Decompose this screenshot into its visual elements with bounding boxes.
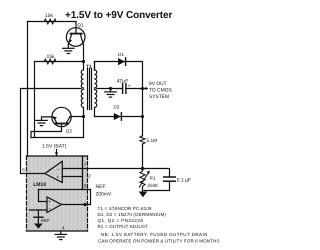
node: D2 bus junction <box>141 115 144 118</box>
svg-text:D1: D1 <box>118 52 124 57</box>
svg-text:D1, D2 = 1N270 (GERMANIUM): D1, D2 = 1N270 (GERMANIUM) <box>98 212 167 217</box>
wire: top horizontal to Q1 base <box>28 21 77 23</box>
wire: Q2 collector to primary bottom <box>70 116 84 118</box>
wire: feedback to LM10 <box>62 168 142 170</box>
svg-text:200mV: 200mV <box>96 191 113 197</box>
wire: battery loop bottom <box>31 137 84 139</box>
svg-text:4: 4 <box>62 226 65 231</box>
wire: secondary bottom to bus <box>95 116 143 118</box>
diode D2 <box>114 113 122 120</box>
svg-text:D2: D2 <box>114 105 120 110</box>
svg-text:SYSTEM: SYSTEM <box>149 94 169 100</box>
ground (Q1 emitter) <box>63 45 74 54</box>
resistor R 15k (top) <box>44 19 56 24</box>
wire: op-amp output to drive rail <box>21 173 45 175</box>
svg-text:6: 6 <box>22 168 25 173</box>
svg-text:R1 = OUTPUT ADJUST: R1 = OUTPUT ADJUST <box>98 224 149 229</box>
svg-text:0.1 µF: 0.1 µF <box>177 178 191 184</box>
wire: Q2 emitter to ground <box>42 117 54 121</box>
svg-text:250K: 250K <box>148 183 160 188</box>
ground (Q2 emitter) <box>36 120 47 125</box>
svg-text:7: 7 <box>84 162 87 167</box>
wire: primary center tap <box>21 88 82 90</box>
reference symbol REF <box>34 210 43 229</box>
svg-text:CAN OPERATE ON POWER & UTILITY: CAN OPERATE ON POWER & UTILITY FOR 6 MON… <box>98 239 220 244</box>
transistor Q1 <box>66 22 85 47</box>
wire: comparator minus input <box>62 176 82 178</box>
wire: cap to bus <box>126 88 143 90</box>
wire: secondary top to bus <box>95 62 143 89</box>
capacitor 47uF <box>123 84 126 94</box>
wire: battery stub into box <box>56 150 58 156</box>
label 9V OUT TO CMOS SYSTEM <box>149 81 172 100</box>
svg-text:Q2: Q2 <box>66 129 73 134</box>
wire: ref amp output <box>62 204 91 206</box>
potentiometer R1 250K <box>139 169 150 188</box>
svg-text:47µF: 47µF <box>117 79 129 85</box>
wire: Q2 base return <box>31 132 62 138</box>
ground (output) <box>105 89 116 98</box>
transformer T1 secondary winding <box>95 62 97 117</box>
diode D1 <box>118 58 126 65</box>
wire: V+ internal <box>82 156 84 190</box>
capacitor 0.1uF <box>164 177 176 181</box>
wire: resistor to pot junction <box>142 144 144 169</box>
svg-text:Q1, Q2 = PN2222A: Q1, Q2 = PN2222A <box>98 218 144 223</box>
svg-text:+1.5V to +9V Converter: +1.5V to +9V Converter <box>65 10 173 21</box>
svg-text:15k: 15k <box>45 13 54 19</box>
svg-text:1.5V (BAT): 1.5V (BAT) <box>42 144 67 150</box>
svg-text:+: + <box>48 200 51 205</box>
wire: ref amp plus input <box>39 190 48 202</box>
wire: ref net down to output <box>90 190 92 205</box>
wire: top rail from outer-left down <box>27 22 29 157</box>
svg-text:T1 = STANCOR PC-8109: T1 = STANCOR PC-8109 <box>98 206 152 211</box>
transistor Q2 <box>52 107 71 131</box>
wire: drive rail down to op-amp output <box>20 89 22 174</box>
svg-text:−: − <box>49 208 52 213</box>
svg-text:REF: REF <box>41 218 50 223</box>
svg-text:NB: 1.5V BATTERY, FUSED OUTPUT: NB: 1.5V BATTERY, FUSED OUTPUT DRAIN <box>101 232 208 237</box>
transformer T1 primary winding <box>81 62 83 117</box>
svg-text:REF: REF <box>96 184 106 190</box>
svg-text:8: 8 <box>84 183 87 188</box>
ground (LM10) <box>55 234 66 239</box>
wire: cap loop top <box>143 169 170 178</box>
node: bus 9V junction <box>141 87 144 90</box>
svg-text:+: + <box>57 176 60 181</box>
svg-text:2: 2 <box>88 174 91 179</box>
node: feedback junction <box>141 167 145 171</box>
svg-text:TO CMOS: TO CMOS <box>149 87 172 93</box>
transformer core <box>88 69 92 110</box>
wire: ref amp output net <box>39 189 91 191</box>
svg-text:Q1: Q1 <box>78 23 85 28</box>
op-amp U1b (reference, points right) <box>47 197 62 213</box>
notes <box>98 206 220 244</box>
LM10 box <box>27 156 88 231</box>
op-amp U1a (comparator, points left) <box>45 161 63 182</box>
svg-text:15k: 15k <box>47 54 56 60</box>
svg-text:T1: T1 <box>86 64 92 70</box>
wire: Q1 collector down to transformer <box>83 44 85 62</box>
node: output ground junction <box>109 87 112 90</box>
node: collector/primary junction <box>82 60 85 63</box>
label REF 200mV <box>96 184 113 197</box>
svg-text:−: − <box>57 168 60 173</box>
svg-text:9V OUT: 9V OUT <box>149 81 167 87</box>
svg-text:LM10: LM10 <box>33 182 46 188</box>
node: primary bottom junction <box>82 115 85 118</box>
svg-text:R1: R1 <box>150 175 156 180</box>
wire: junction down to battery loop <box>83 117 85 138</box>
wire: ref amp minus input <box>30 209 48 211</box>
wire: 9V output arrow <box>143 88 147 90</box>
resistor 5.1M <box>140 136 145 145</box>
wire: second horizontal <box>35 61 84 63</box>
wire: secondary center tap to cap <box>97 88 123 90</box>
wire: box ground stub <box>60 231 62 234</box>
resistor R 15k (lower) <box>44 59 56 64</box>
wire: pot bottom to ground <box>142 187 144 192</box>
node: ref output junction <box>83 203 86 206</box>
ground (pot, filled arrow) <box>139 192 148 198</box>
wire: cap loop bottom <box>144 181 170 190</box>
wire: inner rail <box>34 62 36 138</box>
wire: bus down <box>142 89 144 137</box>
svg-text:5.1M: 5.1M <box>147 138 158 144</box>
